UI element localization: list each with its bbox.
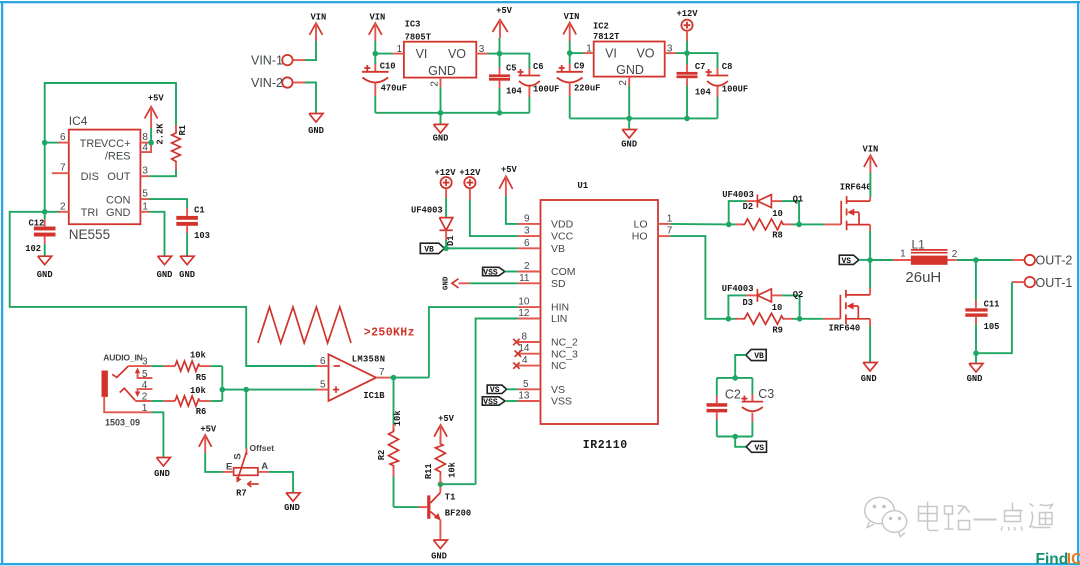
svg-text:IR2110: IR2110 [583,439,628,452]
svg-text:C12: C12 [29,219,45,229]
tag VS (at L1 node) [839,255,859,264]
capacitor C9 220uF [569,53,571,64]
svg-text:IC2: IC2 [593,21,609,31]
ground at R7 A [286,493,300,502]
ground below Q2 [863,363,877,372]
+12V supply at D1 [441,177,452,188]
svg-text:10: 10 [772,209,783,219]
svg-text:2.2K: 2.2K [156,123,166,145]
wire output to HIN riser [390,377,429,379]
resistor R2 10k [393,378,395,425]
svg-text:C10: C10 [380,61,396,71]
wire HO to Q2 gate row [670,236,728,319]
transistor T1 BF200 [427,495,430,518]
pin 3 OUT stub [140,175,149,177]
svg-text:IC1B: IC1B [363,391,385,401]
capacitor C6 100UF [500,54,530,68]
ground rail 7812 [570,117,718,119]
svg-text:VO: VO [636,47,654,61]
+5V supply at 7805 out [493,20,508,32]
ground below C12 [38,256,52,265]
svg-text:LIN: LIN [551,313,567,325]
pad OUT-2 [1025,255,1035,265]
diode D3 UF4003 [728,295,746,318]
char 点 [1003,503,1023,511]
svg-text:10: 10 [518,297,530,308]
svg-text:1: 1 [586,44,592,55]
pin 2 stub 7812 [628,77,630,86]
resistor R9 10 [728,318,735,320]
svg-text:VCC+: VCC+ [101,138,131,150]
svg-text:VIN-2: VIN-2 [251,76,283,90]
svg-text:GND: GND [106,207,131,219]
tag VS (at C2/C3 bottom) [735,437,746,447]
pad VIN-2 [282,77,292,87]
svg-text:VSS: VSS [483,398,498,407]
svg-text:10: 10 [772,303,783,313]
ground below C11 [975,353,977,363]
svg-text:6: 6 [524,238,530,249]
supply VIN arrow (7805 in) [369,23,382,35]
svg-text:2: 2 [60,201,66,212]
svg-text:+5V: +5V [496,6,513,16]
NC x-mark pin4 [513,362,519,368]
wire Q2 source to gnd [869,319,871,326]
svg-text:R9: R9 [772,326,783,336]
svg-text:IRF640: IRF640 [829,324,861,334]
svg-text:TRI: TRI [81,207,99,219]
svg-text:D3: D3 [743,298,754,308]
svg-text:12: 12 [518,308,530,319]
tag VSS (at COM) [483,267,505,275]
svg-text:+12V: +12V [676,9,698,19]
svg-text:UF4003: UF4003 [411,206,443,216]
svg-text:NE555: NE555 [69,227,110,242]
svg-text:IRF640: IRF640 [840,182,872,192]
svg-text:7: 7 [667,226,673,237]
svg-text:C7: C7 [695,62,706,72]
svg-text:+12V: +12V [459,168,481,178]
+5V supply at R7 [199,435,212,447]
svg-text:U1: U1 [577,181,588,191]
svg-text:VI: VI [416,47,428,61]
wire VS node to L1 [870,259,893,261]
svg-text:6: 6 [60,132,66,143]
svg-text:+5V: +5V [438,414,455,424]
svg-text:T1: T1 [445,493,456,503]
wire to op-amp +input [222,389,316,391]
capacitor C5 104 [499,54,501,67]
wire T1 collector to LIN riser [440,483,475,485]
svg-text:HO: HO [632,231,648,243]
svg-text:3: 3 [142,357,148,368]
svg-text:LM358N: LM358N [352,354,385,364]
tag VSS (at pin13) [482,397,505,405]
svg-text:VIN: VIN [862,145,878,155]
svg-text:Q2: Q2 [793,290,804,300]
wire VIN-2 to gnd [293,82,305,84]
pin 6 TRE stub [59,142,69,144]
wire LO to gate row [670,223,729,226]
wire TRI row [10,212,316,366]
wire R5/R6 join [221,366,223,401]
svg-text:GND: GND [157,270,173,280]
svg-text:VCC: VCC [551,231,574,243]
pin 4 /RES stub [140,143,151,153]
svg-text:VIN-1: VIN-1 [251,54,283,68]
svg-text:AUDIO_IN: AUDIO_IN [103,353,142,363]
wire TRE-TRI vertical [44,143,46,212]
svg-text:7805T: 7805T [405,32,432,42]
NC x-mark pin14 [515,351,521,357]
supply VIN arrow (Q1 drain) [864,155,877,167]
svg-text:1503_09: 1503_09 [105,418,140,428]
pin 5 stub op-amp [316,389,329,391]
svg-text:IC: IC [1067,551,1080,566]
svg-text:GND: GND [967,374,983,384]
svg-text:R2: R2 [377,450,387,461]
wire R2 to T1 base [394,506,419,508]
wire OUT-1 pad down to gnd node [1012,281,1025,283]
svg-text:3: 3 [667,44,673,55]
svg-text:C3: C3 [758,387,774,401]
pin 7 DIS stub [52,172,69,174]
pin 2 TRI stub [59,211,69,213]
IC U1 IR2110 box [541,200,659,424]
ground (left arrow) at SD [452,279,459,288]
svg-text:DIS: DIS [81,171,99,183]
svg-text:CON: CON [106,195,131,207]
svg-text:GND: GND [179,270,195,280]
svg-text:+5V: +5V [148,94,165,104]
ground below jack [156,458,170,467]
resistor R5 10k [151,365,164,367]
svg-text:3: 3 [479,44,485,55]
ground below T1 [433,540,447,549]
svg-text:9: 9 [524,213,530,224]
wire pin1 to gnd [151,412,163,457]
svg-text:C6: C6 [533,62,544,72]
tag VB (at C2/C3) [746,349,766,360]
+5V supply at R11 [434,425,447,437]
svg-text:TRE: TRE [80,138,102,150]
resistor R6 10k [151,400,164,402]
capacitor C11 105 [975,260,977,301]
char 路 [945,506,954,529]
svg-text:HIN: HIN [551,302,569,314]
svg-text:4: 4 [142,380,148,391]
svg-text:VIN: VIN [310,13,326,23]
char 一 [974,519,997,521]
svg-text:VIN: VIN [564,12,580,22]
resistor R11 10k [438,481,444,487]
capacitor C10 470uF [374,54,376,64]
ground symbol 7812 [628,118,630,129]
svg-text:1: 1 [667,213,673,224]
pin 2 stub 7805 [440,78,442,87]
svg-text:5: 5 [320,380,326,391]
svg-text:D1: D1 [446,235,456,246]
svg-text:5: 5 [142,369,148,380]
pin 1 stub 7812 [583,52,593,54]
pin 1 stub 7805 [393,53,404,55]
ground rail 7805 [375,112,529,114]
wire Q1 source down to VS node [869,225,871,231]
svg-text:1: 1 [142,201,148,212]
IC3 box 7805T [404,42,476,78]
+12V supply at VCC [464,177,475,188]
+12V supply at 7812 out [681,20,692,31]
svg-text:Offset: Offset [250,443,275,453]
svg-text:NC_3: NC_3 [551,348,578,360]
svg-text:C11: C11 [984,299,1000,309]
ground at 555 pin1 [158,256,172,265]
svg-text:VSS: VSS [483,268,498,277]
jack pin5 switch [138,371,153,378]
svg-text:R11: R11 [424,463,434,479]
left pin stubs IR2110 [518,223,541,225]
capacitor C7 104 [686,53,688,64]
svg-text:GND: GND [308,126,324,136]
svg-text:VB: VB [754,352,764,361]
op-amp IC1B LM358N [329,354,377,401]
svg-text:1: 1 [142,403,148,414]
pin 1 GND stub [140,211,149,213]
wechat icon bubble big [865,497,895,523]
svg-text:11: 11 [519,273,530,284]
wire 555 pin1 to gnd [149,212,165,256]
svg-text:/RES: /RES [105,150,131,162]
svg-text:10k: 10k [190,351,207,361]
ground below C1 [180,256,194,265]
svg-text:R8: R8 [772,231,783,241]
resistor R1 2.2K [175,125,177,127]
IC2 box 7812T [594,42,665,77]
svg-text:2: 2 [952,249,958,260]
svg-text:104: 104 [506,87,523,97]
svg-text:R1: R1 [178,125,188,136]
triangle wave symbol [258,307,351,343]
capacitor C2 [716,378,718,396]
svg-text:C5: C5 [506,63,517,73]
jack ring contact pin2 [120,388,136,400]
pad VIN-1 [282,55,292,65]
svg-text:>250KHz: >250KHz [364,327,415,340]
svg-text:5: 5 [142,189,148,200]
svg-text:GND: GND [37,270,53,280]
svg-text:COM: COM [551,266,576,278]
svg-text:VDD: VDD [551,219,574,231]
svg-text:26uH: 26uH [905,269,941,286]
right pin stubs LO HO [658,223,670,225]
svg-text:GND: GND [428,64,456,78]
svg-text:VO: VO [448,47,466,61]
svg-text:GND: GND [443,276,451,290]
jack tip contact pin3 [112,366,128,377]
svg-text:10k: 10k [447,461,457,478]
capacitor C8 100UF [687,53,718,68]
wire gate Q2 [800,318,824,320]
supply VIN arrow (7812 in) [563,23,576,35]
svg-text:+12V: +12V [434,168,456,178]
svg-text:3: 3 [142,166,148,177]
svg-text:103: 103 [194,231,210,241]
jack pin4 switch [138,389,153,393]
svg-text:7: 7 [379,367,385,378]
svg-text:GND: GND [433,133,449,143]
pin 6 stub op-amp [316,365,329,367]
char 电 [928,502,939,531]
node junction TRI [42,209,48,215]
svg-text:2: 2 [429,81,440,87]
svg-text:C9: C9 [574,61,585,71]
svg-text:VS: VS [551,384,565,396]
wire Q2 drain up to VS node [869,288,871,295]
svg-text:VS: VS [754,444,764,453]
supply VIN arrow (over VIN-1) [310,23,323,35]
pin 8 VCC+ stub [140,142,151,144]
NC x-mark pin8 [513,339,519,345]
wire CON to C1 [149,199,187,208]
svg-text:R6: R6 [196,407,207,417]
svg-text:IC4: IC4 [69,114,88,128]
svg-text:R5: R5 [196,373,207,383]
capacitor C1 103 [186,208,188,216]
transistor Q2 IRF640 [840,290,870,324]
svg-text:D2: D2 [743,202,754,212]
svg-text:VS: VS [841,257,851,266]
capacitor C12 102 [44,212,46,219]
wire R7 A to gnd [269,472,293,493]
wire VB to pin6 [444,247,517,249]
svg-text:GND: GND [154,469,170,479]
svg-text:VI: VI [605,47,617,61]
svg-text:2: 2 [618,80,629,86]
svg-text:LO: LO [633,219,647,231]
svg-text:+5V: +5V [501,165,518,175]
svg-text:VSS: VSS [551,396,572,408]
char 通 [1030,504,1051,528]
capacitor C3 [751,378,753,394]
svg-text:SD: SD [551,278,566,290]
wire VIN-1 to VIN arrow [293,59,305,61]
svg-text:220uF: 220uF [574,84,600,94]
diode D1 UF4003 [439,218,452,231]
svg-text:4: 4 [142,142,148,153]
pin 5 CON stub [140,198,149,200]
svg-text:NC_2: NC_2 [551,337,578,349]
svg-text:7: 7 [60,163,66,174]
cap bottom rail [717,436,753,438]
svg-text:1: 1 [397,44,403,55]
svg-text:C8: C8 [722,62,733,72]
svg-text:VB: VB [424,245,434,254]
wire HIN [429,307,518,378]
+5V supply at VDD [499,176,512,189]
wire net TRE loop top [45,83,176,143]
svg-text:2: 2 [142,391,148,402]
svg-text:UF4003: UF4003 [722,284,754,294]
svg-text:470uF: 470uF [381,84,407,94]
+5V supply at pin8 [145,107,158,119]
wire +input node down to wiper [245,390,247,449]
pad OUT-1 [1025,277,1035,287]
svg-text:+5V: +5V [200,425,217,435]
svg-text:4: 4 [522,355,528,366]
svg-text:VS: VS [490,386,500,395]
svg-text:GND: GND [861,374,877,384]
svg-text:100UF: 100UF [722,85,748,95]
pin 3 stub 7812 [665,52,676,54]
svg-text:OUT-2: OUT-2 [1036,254,1073,268]
svg-text:7812T: 7812T [593,32,620,42]
svg-text:5: 5 [523,379,529,390]
IC4 box NE555 [69,130,141,225]
svg-text:C1: C1 [194,206,205,216]
svg-text:105: 105 [984,322,1000,332]
svg-text:OUT-1: OUT-1 [1036,276,1073,290]
wire L1 to OUT-2 pad [976,259,1013,261]
ground below VIN-2 [309,114,323,123]
svg-text:GND: GND [431,551,447,561]
svg-text:8: 8 [521,332,527,343]
svg-text:GND: GND [621,140,637,150]
node junction TRE [42,140,48,146]
tag VB (at IR2110) [420,243,444,253]
svg-text:OUT: OUT [107,171,131,183]
svg-text:S: S [233,453,244,459]
svg-text:13: 13 [518,391,530,402]
svg-text:102: 102 [25,244,41,254]
wire LIN [476,319,518,485]
svg-text:IC3: IC3 [405,20,421,30]
svg-text:VIN: VIN [369,13,385,23]
svg-text:10k: 10k [190,386,207,396]
potentiometer R7 [234,468,258,476]
svg-text:A: A [261,461,268,472]
svg-text:Q1: Q1 [793,194,804,204]
svg-text:BF200: BF200 [445,508,471,518]
svg-text:104: 104 [695,87,712,97]
watermark text 电路一点通 (stylized) [919,502,1053,531]
svg-text:E: E [226,462,232,473]
inductor L1 26uH [911,256,948,265]
tag VS (at pin5) [487,385,506,393]
svg-text:UF4003: UF4003 [722,190,754,200]
svg-text:C2: C2 [725,387,741,401]
svg-text:Find: Find [1036,551,1069,566]
svg-text:GND: GND [284,503,300,513]
pin 7 output stub [376,377,390,379]
svg-text:3: 3 [524,226,530,237]
svg-text:10k: 10k [393,410,403,427]
svg-text:L1: L1 [912,237,926,251]
transistor Q1 IRF640 [841,196,870,230]
svg-text:VB: VB [551,243,565,255]
wechat icon bubble small [882,511,906,533]
resistor R8 10 [729,223,736,225]
wire gate Q1 [799,223,824,225]
ground symbol 7805 [440,113,442,125]
svg-text:NC: NC [551,360,567,372]
diode D2 UF4003 [729,201,746,224]
svg-text:1: 1 [900,249,906,260]
wire VB tag to cap top rail [735,355,746,378]
svg-text:2: 2 [524,261,530,272]
svg-text:GND: GND [616,63,644,77]
pin 3 stub 7805 [476,53,487,55]
svg-text:R7: R7 [236,489,247,499]
